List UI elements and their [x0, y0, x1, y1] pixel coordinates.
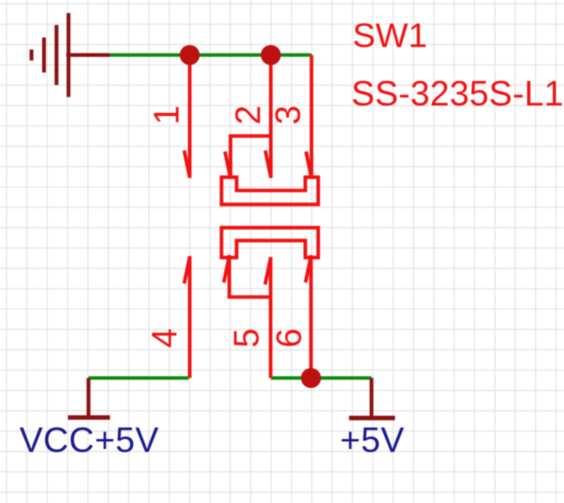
svg-text:SW1: SW1 [353, 17, 428, 55]
svg-text:+5V: +5V [340, 421, 405, 460]
svg-text:2: 2 [229, 105, 268, 124]
svg-text:VCC+5V: VCC+5V [20, 421, 160, 460]
svg-text:6: 6 [270, 328, 309, 347]
svg-text:5: 5 [227, 328, 266, 347]
svg-text:SS-3235S-L1: SS-3235S-L1 [351, 74, 563, 113]
svg-text:1: 1 [148, 105, 187, 124]
svg-text:3: 3 [269, 105, 308, 124]
svg-text:4: 4 [146, 328, 185, 347]
